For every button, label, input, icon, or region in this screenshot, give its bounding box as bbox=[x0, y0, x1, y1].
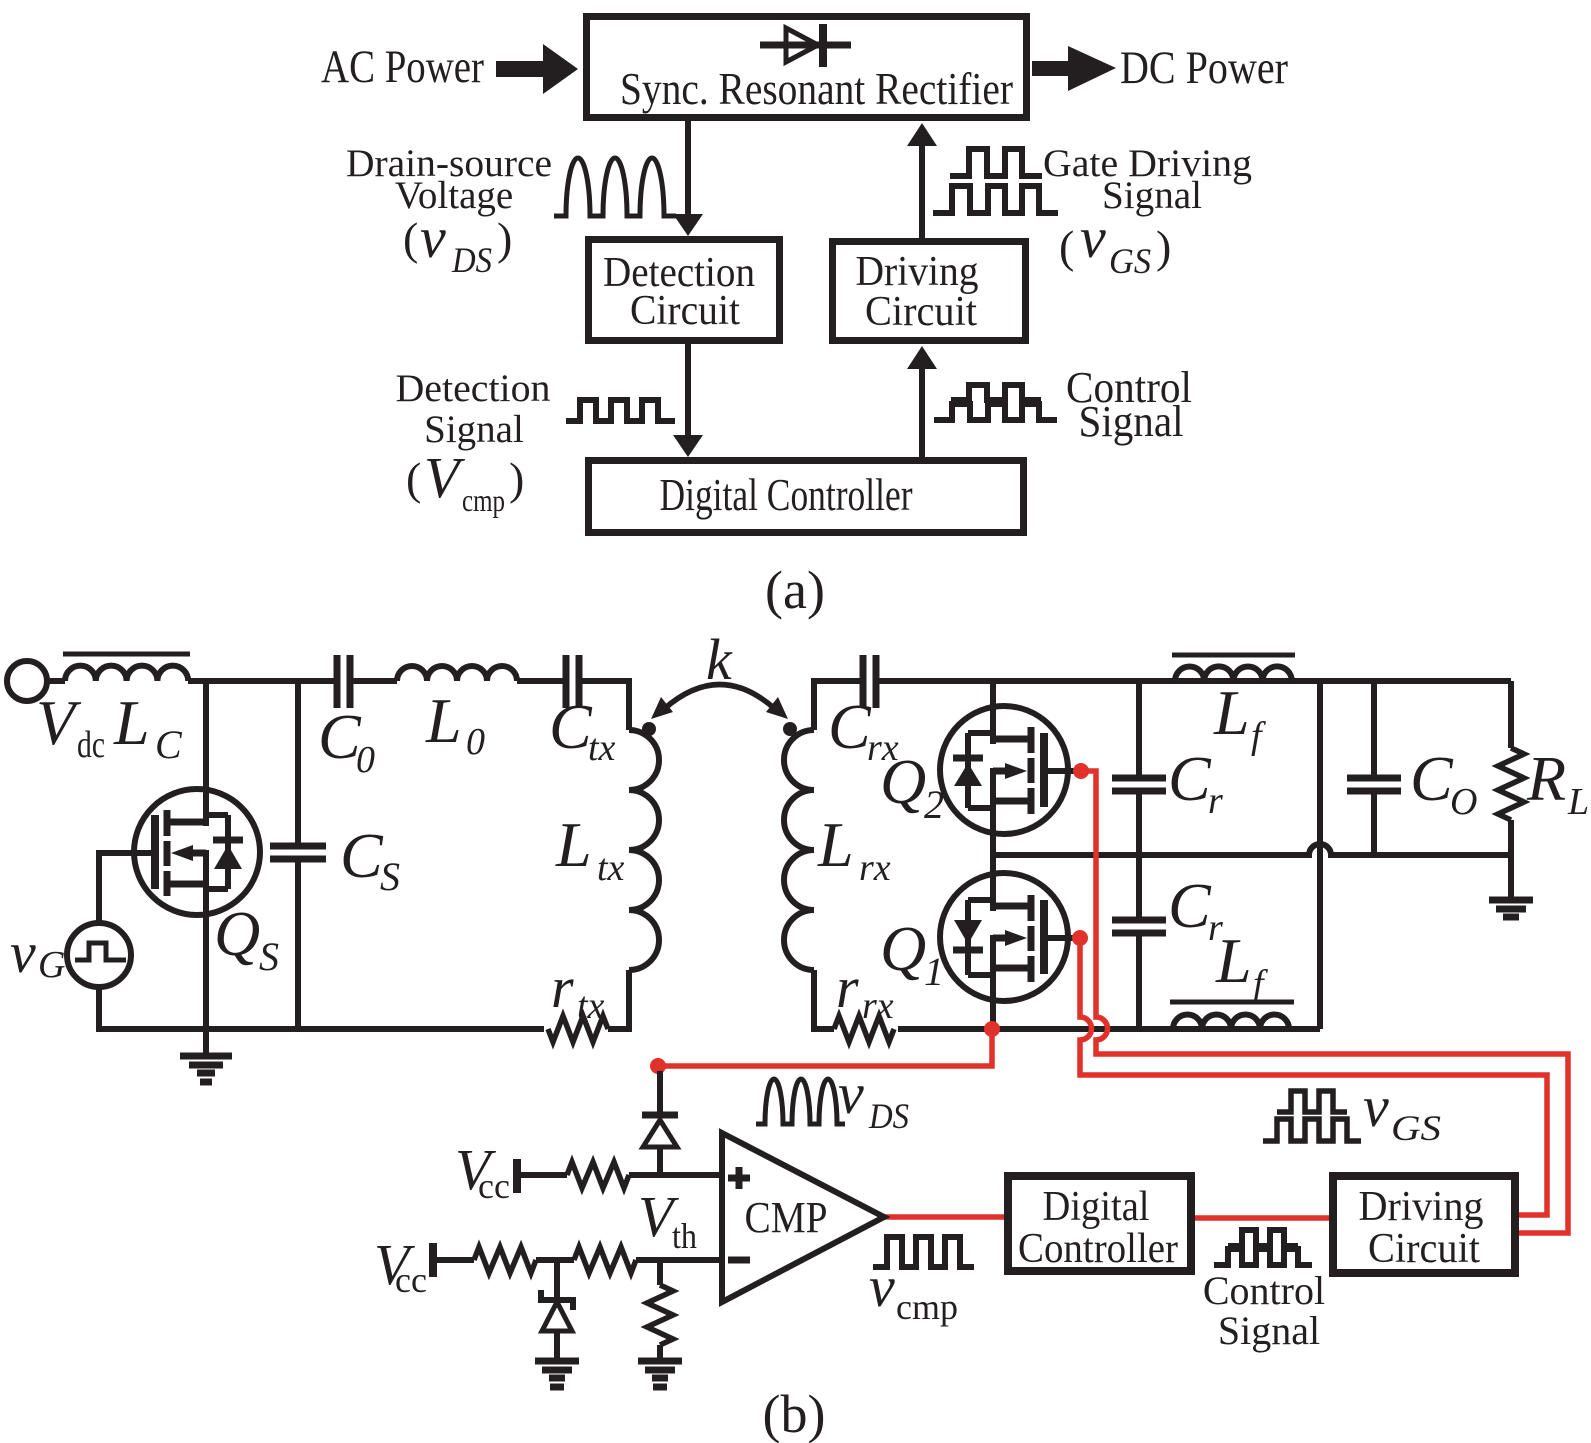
svg-text:Digital: Digital bbox=[1043, 1184, 1150, 1230]
svg-text:v: v bbox=[1080, 205, 1106, 270]
waveform control signal (a) bbox=[934, 385, 1057, 420]
svg-text:v: v bbox=[869, 1254, 895, 1319]
svg-text:v: v bbox=[838, 1061, 864, 1126]
red node dot Q1 gate bbox=[1072, 930, 1088, 946]
wire arrow rectifier to Detection Circuit bbox=[673, 121, 703, 236]
svg-text:L: L bbox=[1567, 781, 1589, 823]
waveform drain-source voltage pulses (a) bbox=[554, 158, 676, 216]
wire Ltx to rtx corner bbox=[608, 970, 629, 1029]
wire Ctx to Ltx corner bbox=[582, 681, 629, 730]
wire arrow Digital Controller to Driving Circuit bbox=[907, 346, 937, 457]
wire L0 to Ctx bbox=[517, 678, 563, 684]
wire junction zener tap bbox=[536, 1257, 574, 1263]
terminal Vdc bbox=[7, 661, 47, 701]
wire right vertical top-to-bottom rail bbox=[1317, 681, 1323, 1029]
svg-text:DS: DS bbox=[451, 240, 492, 280]
ground RL bbox=[1489, 900, 1533, 917]
svg-text:0: 0 bbox=[466, 721, 485, 763]
wire Q2 drain vertical bbox=[990, 681, 996, 744]
resistor RL bbox=[1498, 681, 1524, 900]
svg-text:C: C bbox=[340, 820, 384, 891]
wire QS source vertical bbox=[203, 850, 209, 1056]
svg-text:C: C bbox=[155, 722, 183, 767]
svg-text:tx: tx bbox=[588, 727, 616, 769]
svg-text:Q: Q bbox=[214, 898, 260, 969]
capacitor Cr bottom bbox=[1112, 855, 1166, 1029]
wire Lrx top corner to Crx bbox=[814, 681, 860, 730]
red wire vDS sense from Q1 source node bbox=[658, 1029, 992, 1066]
red wire Digital Controller to Driving Circuit bbox=[1195, 1215, 1329, 1221]
wire Q2 source to Q1 drain vertical bbox=[990, 768, 996, 911]
dot TX winding bbox=[642, 722, 656, 736]
wire TX bottom rail bbox=[99, 987, 544, 1029]
svg-text:(: ( bbox=[1059, 221, 1074, 272]
arrow DC Power output bbox=[1032, 46, 1116, 91]
svg-text:Digital Controller: Digital Controller bbox=[660, 469, 913, 520]
svg-text:Circuit: Circuit bbox=[1368, 1226, 1480, 1272]
svg-text:Circuit: Circuit bbox=[865, 289, 977, 335]
svg-text:Controller: Controller bbox=[1018, 1226, 1178, 1272]
svg-text:Sync. Resonant Rectifier: Sync. Resonant Rectifier bbox=[620, 63, 1013, 114]
wire resistor2 to CMP minus input bbox=[636, 1257, 722, 1263]
svg-text:): ) bbox=[1156, 221, 1171, 272]
wire Q1 source vertical bbox=[990, 935, 996, 1029]
capacitor Crx bbox=[863, 655, 876, 708]
svg-text:tx: tx bbox=[597, 847, 625, 889]
svg-text:Signal: Signal bbox=[1218, 1308, 1320, 1353]
block Digital Controller (b) bbox=[1008, 1176, 1191, 1271]
svg-text:v: v bbox=[420, 205, 446, 270]
wire RX top rail bbox=[879, 678, 1511, 684]
diode symbol (rectifier icon) bbox=[760, 24, 851, 67]
svg-text:): ) bbox=[497, 213, 512, 264]
svg-text:(: ( bbox=[403, 213, 418, 264]
resistor Vth divider bbox=[647, 1260, 673, 1361]
wire Lrx bottom corner to rrx bbox=[814, 970, 834, 1029]
wire Vcc lower to resistor1 bbox=[433, 1257, 474, 1263]
red wire Q1 gate to driving circuit upper port bbox=[1080, 938, 1547, 1215]
wire terminal to LC bbox=[47, 678, 65, 684]
source vG bbox=[67, 923, 131, 987]
svg-text:O: O bbox=[1450, 781, 1477, 823]
waveform gate driving signal (a) bbox=[933, 149, 1058, 213]
svg-text:Signal: Signal bbox=[1102, 174, 1202, 217]
red wire CMP output to Digital Controller bbox=[884, 1214, 1004, 1220]
dot RX winding bbox=[783, 722, 797, 736]
waveform control signal (b) bbox=[1214, 1230, 1312, 1265]
svg-text:v: v bbox=[10, 920, 36, 985]
svg-text:k: k bbox=[706, 627, 733, 692]
wire Vcc upper to resistor bbox=[517, 1172, 567, 1178]
capacitor CO bbox=[1347, 681, 1401, 855]
terminal Vcc upper bbox=[513, 1159, 521, 1193]
svg-text:S: S bbox=[380, 854, 400, 899]
svg-text:L: L bbox=[1215, 925, 1252, 996]
svg-text:rx: rx bbox=[862, 985, 894, 1027]
resistor lower Vcc first bbox=[474, 1247, 536, 1273]
svg-text:R: R bbox=[1526, 743, 1566, 814]
wire TX top rail bbox=[188, 678, 334, 684]
waveform vDS pulses (b) bbox=[756, 1079, 845, 1124]
red node dot at Q1 source junction bbox=[984, 1021, 1000, 1037]
arrow AC Power input bbox=[496, 44, 578, 94]
svg-text:L: L bbox=[425, 685, 462, 756]
ground Vth resistor bbox=[638, 1361, 682, 1387]
svg-text:0: 0 bbox=[356, 739, 375, 781]
wire arrow Driving Circuit to rectifier bbox=[907, 123, 937, 238]
svg-text:1: 1 bbox=[924, 949, 944, 994]
block Driving Circuit bbox=[833, 242, 1026, 341]
svg-text:S: S bbox=[259, 934, 279, 979]
svg-text:DS: DS bbox=[868, 1096, 909, 1136]
wire vG to QS gate bbox=[99, 853, 155, 923]
coupling arc k bbox=[651, 685, 788, 720]
svg-text:cc: cc bbox=[395, 1260, 427, 1300]
svg-text:C: C bbox=[1168, 743, 1212, 814]
svg-text:Driving: Driving bbox=[1359, 1184, 1484, 1230]
svg-text:r: r bbox=[836, 955, 859, 1020]
svg-text:AC Power: AC Power bbox=[321, 41, 484, 93]
svg-text:(b): (b) bbox=[763, 1384, 826, 1443]
mosfet Q1 bbox=[940, 873, 1077, 1001]
svg-text:L: L bbox=[817, 809, 854, 880]
inductor Lrx bbox=[784, 730, 814, 970]
block Digital Controller (a) bbox=[589, 461, 1024, 533]
resistor lower Vcc second bbox=[574, 1247, 636, 1273]
svg-text:Q: Q bbox=[880, 913, 926, 984]
capacitor C0 bbox=[337, 655, 350, 708]
svg-text:Control: Control bbox=[1203, 1268, 1325, 1313]
waveform detection signal (a) bbox=[566, 400, 675, 421]
wire QS drain vertical bbox=[203, 681, 209, 826]
svg-text:r: r bbox=[551, 955, 574, 1020]
wire C0 to L0 bbox=[353, 678, 397, 684]
inductor LC bbox=[63, 654, 190, 681]
svg-text:L: L bbox=[113, 687, 150, 758]
ground TX bbox=[180, 1056, 232, 1082]
svg-text:(: ( bbox=[406, 453, 421, 504]
wire RX bottom rail bbox=[898, 1026, 1320, 1032]
wire resistor to CMP plus input bbox=[629, 1172, 722, 1178]
svg-text:C: C bbox=[1410, 743, 1454, 814]
capacitor Ctx bbox=[566, 655, 579, 708]
capacitor Cr top bbox=[1112, 681, 1166, 855]
svg-text:GS: GS bbox=[1391, 1108, 1441, 1148]
inductor Lf top bbox=[1172, 655, 1295, 681]
wire arrow Detection Circuit to Digital Controller bbox=[673, 344, 703, 457]
wire RX middle rail with hop bbox=[993, 844, 1511, 855]
mosfet QS bbox=[134, 789, 260, 915]
svg-text:Q: Q bbox=[880, 746, 926, 817]
block Driving Circuit (b) bbox=[1333, 1176, 1515, 1273]
resistor rrx bbox=[834, 1016, 894, 1042]
svg-text:): ) bbox=[509, 453, 524, 504]
block Sync. Resonant Rectifier bbox=[587, 17, 1027, 118]
red node dot Q2 gate bbox=[1073, 763, 1089, 779]
svg-text:C: C bbox=[828, 691, 872, 762]
svg-text:C: C bbox=[549, 691, 593, 762]
block Detection Circuit bbox=[589, 240, 780, 341]
terminal Vcc lower bbox=[429, 1243, 437, 1277]
svg-text:v: v bbox=[1363, 1074, 1389, 1139]
svg-text:th: th bbox=[672, 1216, 697, 1256]
capacitor CS bbox=[270, 681, 326, 1029]
svg-text:Circuit: Circuit bbox=[630, 288, 740, 334]
svg-text:dc: dc bbox=[77, 724, 105, 766]
ground zener bbox=[535, 1361, 579, 1387]
svg-text:Detection: Detection bbox=[396, 367, 551, 410]
mosfet Q2 bbox=[940, 706, 1078, 834]
svg-text:cmp: cmp bbox=[462, 482, 505, 518]
red node dot at diode tap bbox=[650, 1058, 666, 1074]
svg-text:tx: tx bbox=[577, 985, 605, 1027]
red wire Q2 gate to driving circuit lower port bbox=[1081, 771, 1568, 1233]
diode detection (above CMP+) bbox=[642, 1071, 678, 1175]
svg-text:C: C bbox=[1168, 870, 1212, 941]
waveform vGS double square (b) bbox=[1263, 1091, 1361, 1141]
svg-text:cc: cc bbox=[478, 1166, 510, 1206]
svg-text:DC Power: DC Power bbox=[1120, 42, 1288, 94]
zener diode bbox=[541, 1260, 573, 1361]
comparator CMP bbox=[722, 1133, 884, 1302]
resistor rtx bbox=[548, 1016, 608, 1042]
svg-text:(a): (a) bbox=[765, 560, 825, 620]
svg-text:Voltage: Voltage bbox=[395, 174, 513, 217]
svg-text:G: G bbox=[38, 944, 65, 986]
svg-text:2: 2 bbox=[924, 782, 944, 827]
waveform vcmp square wave bbox=[873, 1237, 974, 1267]
svg-text:L: L bbox=[555, 809, 592, 880]
inductor Lf bottom bbox=[1170, 1002, 1294, 1029]
svg-text:L: L bbox=[1213, 677, 1250, 748]
svg-text:cmp: cmp bbox=[896, 1287, 958, 1327]
inductor L0 bbox=[397, 666, 517, 681]
svg-text:GS: GS bbox=[1109, 241, 1151, 281]
inductor Ltx bbox=[629, 730, 659, 970]
svg-text:Signal: Signal bbox=[1079, 397, 1184, 446]
svg-text:rx: rx bbox=[859, 847, 891, 889]
svg-text:r: r bbox=[1208, 780, 1223, 822]
resistor upper Vcc bbox=[567, 1162, 629, 1188]
svg-text:CMP: CMP bbox=[745, 1193, 828, 1242]
